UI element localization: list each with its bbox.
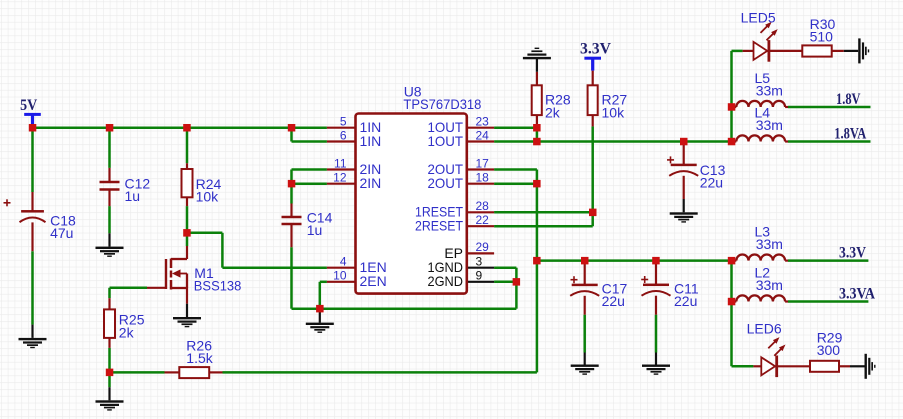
svg-text:22u: 22u [602,293,625,309]
svg-text:TPS767D318: TPS767D318 [403,96,481,112]
svg-text:1.5k: 1.5k [186,350,213,366]
svg-text:1u: 1u [307,222,323,238]
svg-text:10k: 10k [196,188,220,204]
svg-text:4: 4 [340,255,347,269]
svg-text:33m: 33m [756,83,783,99]
svg-text:10k: 10k [602,104,626,120]
svg-text:2EN: 2EN [360,273,387,289]
svg-text:5: 5 [340,115,347,129]
svg-text:5V: 5V [20,97,38,114]
svg-text:510: 510 [810,29,834,45]
svg-text:1.8V: 1.8V [836,91,861,108]
svg-text:2RESET: 2RESET [415,218,463,234]
svg-text:1IN: 1IN [360,133,382,149]
svg-text:22: 22 [476,213,490,227]
svg-text:18: 18 [476,171,490,185]
svg-text:3.3V: 3.3V [580,41,612,58]
svg-text:11: 11 [334,156,347,170]
svg-text:9: 9 [476,269,483,283]
svg-text:33m: 33m [756,117,783,133]
svg-text:33m: 33m [756,236,783,252]
svg-text:22u: 22u [674,293,697,309]
svg-text:1OUT: 1OUT [428,133,464,149]
svg-text:2GND: 2GND [428,273,464,289]
svg-text:47u: 47u [50,225,73,241]
svg-text:33m: 33m [756,277,783,293]
svg-text:3: 3 [476,255,483,269]
svg-text:10: 10 [333,269,347,283]
svg-text:2IN: 2IN [360,175,382,191]
svg-text:24: 24 [476,128,490,142]
svg-text:3.3VA: 3.3VA [839,285,876,302]
svg-text:2OUT: 2OUT [428,175,464,191]
svg-text:6: 6 [340,128,347,142]
svg-text:22u: 22u [700,175,723,191]
svg-text:BSS138: BSS138 [194,278,242,294]
svg-text:12: 12 [333,171,347,185]
svg-text:28: 28 [476,199,490,213]
svg-text:2k: 2k [545,104,561,120]
svg-text:LED5: LED5 [741,9,776,25]
svg-text:300: 300 [817,342,841,358]
svg-text:3.3V: 3.3V [839,245,867,262]
svg-text:1.8VA: 1.8VA [834,126,867,143]
svg-text:17: 17 [476,156,490,170]
svg-text:1u: 1u [125,188,141,204]
svg-text:23: 23 [476,115,490,129]
svg-text:2k: 2k [119,324,135,340]
svg-text:29: 29 [476,240,490,254]
svg-text:LED6: LED6 [747,321,782,337]
